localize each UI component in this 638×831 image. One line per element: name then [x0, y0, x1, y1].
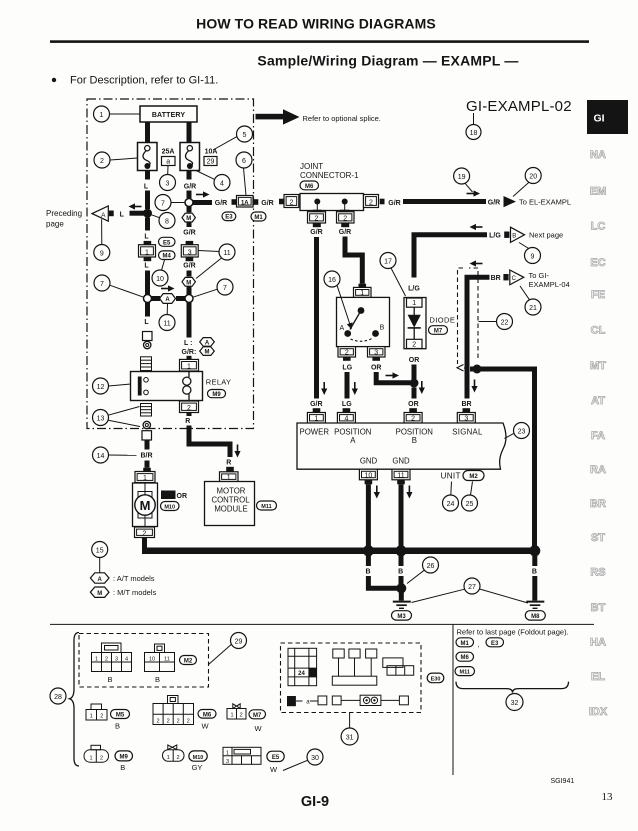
svg-text:Refer to optional splice.: Refer to optional splice. [303, 114, 381, 123]
wire L down [145, 271, 150, 295]
joint connector right pin box 2 [364, 195, 379, 208]
callout circle 18 [466, 125, 481, 140]
oval M6 ref [456, 652, 474, 661]
svg-text:a: a [306, 700, 310, 706]
wire G/R power down [314, 237, 319, 399]
callout circle 28 [50, 688, 66, 704]
connector M10 drawing [163, 745, 185, 761]
callout circle 20 [525, 168, 541, 184]
nub below box right [341, 223, 349, 227]
nub [254, 199, 259, 205]
svg-text:1: 1 [412, 300, 416, 307]
svg-text:EXAMPL-04: EXAMPL-04 [529, 280, 570, 289]
svg-text:M6: M6 [203, 712, 212, 718]
fuse block connector 1A [237, 196, 254, 208]
switch lever [350, 311, 361, 330]
svg-text:2: 2 [100, 714, 103, 720]
arrow down beside LG [352, 382, 358, 395]
svg-text:M2: M2 [184, 659, 193, 665]
svg-text:MODULE: MODULE [214, 505, 247, 514]
svg-text:B/R: B/R [140, 453, 152, 460]
grommet below relay [143, 421, 150, 428]
unit pin box 11 [392, 469, 410, 480]
svg-text:OR: OR [408, 401, 419, 408]
wire segment [187, 287, 192, 295]
callout circle 10 [152, 270, 168, 286]
svg-text:MT: MT [590, 360, 606, 372]
arrow down beside G/R [321, 382, 327, 395]
svg-text:W: W [201, 722, 209, 731]
svg-text:11: 11 [163, 320, 170, 327]
svg-text:E5: E5 [163, 240, 171, 246]
svg-text:M8: M8 [531, 614, 540, 620]
svg-text:Next page: Next page [529, 231, 563, 240]
connector M5 drawing [86, 704, 107, 720]
junction dot OR [410, 379, 419, 388]
wire stub into relay pin 1 [187, 356, 192, 360]
wire GND 10 down [366, 484, 371, 549]
hatched joint above relay [141, 357, 152, 371]
wire G/R below splice [187, 303, 192, 338]
svg-text:27: 27 [468, 584, 476, 591]
svg-text:B: B [398, 568, 403, 575]
wire color swatch OR [161, 491, 176, 500]
svg-text:DIODE: DIODE [430, 316, 456, 325]
E30 pin towers [332, 649, 377, 685]
svg-text:2: 2 [369, 199, 373, 206]
svg-text:M7: M7 [253, 713, 262, 719]
svg-text:W: W [270, 765, 278, 774]
svg-text:M10: M10 [193, 755, 204, 761]
link wire between splices [152, 296, 161, 301]
svg-text:GI: GI [593, 113, 604, 125]
svg-text:29: 29 [207, 159, 215, 166]
svg-text:GND: GND [392, 456, 410, 465]
svg-text:To EL-EXAMPL: To EL-EXAMPL [519, 197, 571, 206]
svg-text:5: 5 [243, 132, 247, 139]
nub below pin 11 [397, 480, 405, 485]
svg-text:BR: BR [590, 498, 606, 510]
svg-text:CONTROL: CONTROL [211, 496, 250, 505]
svg-text:3: 3 [374, 350, 378, 357]
svg-text:GI-EXAMPL-02: GI-EXAMPL-02 [466, 98, 572, 115]
callout circle 13 [93, 410, 109, 426]
svg-text:SGI941: SGI941 [551, 778, 575, 785]
svg-text:OR: OR [177, 493, 188, 500]
svg-text:R: R [185, 418, 190, 425]
detectable-circuit dashed box [458, 268, 479, 368]
svg-text:,: , [478, 640, 480, 649]
callout circle 5 [237, 126, 253, 142]
svg-text:Sample/Wiring Diagram — EXAMPL: Sample/Wiring Diagram — EXAMPL — [257, 53, 518, 69]
svg-text:C: C [512, 276, 517, 282]
svg-text:M: M [140, 498, 151, 513]
svg-text:2: 2 [187, 405, 191, 412]
arrow down beside wire 10 [374, 486, 380, 499]
svg-text:2: 2 [412, 341, 416, 348]
svg-text:4: 4 [220, 180, 224, 187]
ground oval M3 [392, 611, 412, 620]
wire G/R down from splice [187, 207, 192, 213]
callout circle 2 [94, 152, 110, 168]
diode CR1 body [404, 298, 426, 349]
svg-text:M9: M9 [212, 392, 221, 398]
svg-text:L: L [144, 262, 149, 269]
svg-text:W: W [254, 724, 262, 733]
callout circle 32 [506, 694, 523, 711]
connector oval E5 [267, 751, 284, 761]
svg-text:2: 2 [187, 718, 190, 724]
ground bus wire [142, 548, 535, 555]
motor pin box 1 [135, 472, 155, 483]
diode pin box 2 [407, 339, 423, 348]
callout circle 6 [236, 152, 252, 168]
hexagon M on G/R wire [182, 277, 195, 286]
wire segment [187, 223, 192, 228]
switch contact B [372, 330, 379, 337]
svg-text:13: 13 [602, 791, 614, 803]
svg-text:A: A [350, 436, 356, 445]
connector E5 drawing [223, 747, 261, 765]
callout line to 18 [473, 113, 475, 125]
svg-text:2: 2 [176, 755, 179, 761]
svg-text:G/R: G/R [388, 200, 400, 207]
svg-text:RELAY: RELAY [206, 378, 232, 387]
next-page triangle A [92, 206, 108, 221]
arrow down beside BR wire [471, 380, 477, 393]
svg-text:1: 1 [226, 751, 229, 757]
svg-text:To GI-: To GI- [529, 271, 550, 280]
svg-text:G/R: G/R [183, 262, 195, 269]
hexagon A link [160, 294, 176, 304]
svg-text:E30: E30 [431, 677, 441, 683]
svg-text:M: M [205, 350, 210, 356]
arrow down beside wire 11 [406, 486, 412, 499]
diode symbol [408, 307, 421, 339]
svg-text:1: 1 [90, 714, 93, 720]
svg-text:1: 1 [95, 656, 98, 662]
wire L down from junction [145, 218, 150, 231]
svg-text:6: 6 [242, 158, 246, 165]
connector oval M6 [198, 710, 216, 719]
wire B/R to motor [145, 440, 150, 450]
wire to ground M3 [399, 593, 404, 601]
callout circle 22 [497, 314, 513, 330]
svg-text:25: 25 [466, 501, 474, 508]
wire R relay to module [187, 413, 192, 417]
dashed connector group box E30 [281, 643, 422, 713]
joint connector bottom pin box 2 (right) [337, 212, 355, 223]
svg-text:11: 11 [164, 656, 170, 662]
nub below pin 2 [343, 357, 351, 361]
svg-text:G/R: G/R [310, 229, 322, 236]
svg-text:1: 1 [227, 474, 231, 481]
nub above motor [143, 468, 151, 472]
svg-text:G/R: G/R [183, 230, 195, 237]
svg-text:A: A [98, 577, 103, 583]
svg-text:10A: 10A [205, 149, 218, 156]
nub after triangle A [109, 211, 114, 217]
callout circle 11 [219, 244, 235, 260]
wire L/G next-page run [414, 235, 487, 278]
oval M1 ref [456, 638, 474, 647]
svg-text:4: 4 [125, 656, 128, 662]
svg-text:LG: LG [342, 364, 352, 371]
svg-text:LC: LC [591, 221, 606, 233]
svg-text:2: 2 [156, 718, 159, 724]
nub right of pin box [380, 199, 385, 205]
svg-text:B: B [107, 675, 112, 684]
unit box (torn edge) [297, 423, 506, 469]
splice open circle [185, 199, 193, 207]
svg-text:M3: M3 [397, 614, 406, 620]
svg-text:M2: M2 [469, 474, 478, 480]
svg-text:25A: 25A [162, 149, 175, 156]
unit pin box 4 [337, 413, 355, 424]
callout circle 30 [307, 749, 323, 765]
connector oval M10 [161, 502, 180, 511]
connector M7 drawing [227, 704, 246, 719]
oval E3 ref [486, 638, 504, 647]
unit pin box 1 [307, 413, 325, 424]
svg-text:1: 1 [230, 713, 233, 719]
svg-text:8: 8 [165, 218, 169, 225]
svg-text:L: L [120, 212, 125, 219]
callout circle 17 [380, 253, 396, 269]
bus junction dot 2 [396, 545, 407, 556]
relay pin box 2 [180, 401, 199, 413]
svg-text:B: B [380, 325, 385, 332]
nub above unit pin 2 [409, 408, 417, 412]
svg-text:HOW TO READ WIRING DIAGRAMS: HOW TO READ WIRING DIAGRAMS [196, 16, 436, 32]
E30 grid connector [288, 648, 317, 685]
callout circle 1 [94, 106, 110, 122]
wire LG down [345, 372, 350, 399]
svg-text:7: 7 [223, 285, 227, 292]
svg-text:1: 1 [360, 290, 364, 297]
splice open circle right [185, 295, 193, 303]
svg-text:BR: BR [491, 275, 501, 282]
wire fuse10A down [187, 171, 192, 180]
callout circle 25 [462, 495, 478, 511]
svg-text:2: 2 [314, 216, 318, 223]
svg-text:M: M [186, 216, 191, 222]
svg-text:A: A [101, 212, 106, 219]
inline connector box below relay [142, 431, 152, 440]
svg-text:B: B [155, 675, 160, 684]
motor control module U1 [205, 482, 255, 526]
arrow left above L/G [470, 224, 483, 230]
callout circle 27 [464, 578, 480, 594]
svg-text:1: 1 [143, 475, 147, 482]
svg-text:B: B [532, 568, 537, 575]
connector oval M4 [159, 251, 176, 260]
svg-text:24: 24 [447, 501, 455, 508]
unit pin box 3 [457, 413, 475, 424]
svg-text:3: 3 [464, 416, 468, 423]
svg-text:M1: M1 [461, 641, 470, 647]
connector M2 4-pin drawing [92, 643, 132, 672]
svg-text:ST: ST [591, 532, 605, 544]
svg-text:G/R: G/R [215, 200, 227, 207]
svg-text:Refer to last page (Foldout pa: Refer to last page (Foldout page). [457, 628, 569, 637]
svg-text:1: 1 [89, 756, 92, 762]
joint connector bottom pin box 2 (left) [308, 212, 326, 223]
connector oval E30 [427, 673, 444, 683]
svg-text:2: 2 [289, 199, 293, 206]
svg-text:E5: E5 [272, 755, 280, 761]
callout circle 8 [159, 213, 175, 229]
svg-text:10: 10 [365, 473, 373, 480]
svg-text:1: 1 [145, 250, 149, 257]
GI section tab [587, 100, 628, 134]
svg-text:Preceding: Preceding [46, 209, 82, 218]
svg-text:1: 1 [187, 363, 191, 370]
wire G/R to EL-EXAMPL [403, 199, 486, 204]
svg-text:26: 26 [427, 563, 435, 570]
arrow right on OR [386, 372, 400, 378]
svg-text:M6: M6 [461, 655, 470, 661]
svg-text:EL: EL [591, 671, 605, 683]
svg-text:1: 1 [100, 112, 104, 119]
nub below box 3 [186, 257, 194, 261]
svg-text:: A/T models: : A/T models [113, 574, 155, 583]
svg-text:7: 7 [100, 281, 104, 288]
E30 terminal row [287, 695, 408, 706]
nub below pin 3 [372, 357, 380, 361]
nub above box 1 [144, 241, 152, 245]
svg-text:L: L [144, 319, 149, 326]
svg-text:A: A [339, 325, 344, 332]
wire battery to fuse 10A [187, 122, 192, 143]
callout circle 4 [214, 175, 230, 191]
underbrace [456, 682, 569, 693]
nub below-right [340, 210, 349, 213]
svg-text:B: B [412, 436, 417, 445]
E30 stacked connectors [383, 658, 414, 675]
svg-text:BR: BR [461, 401, 471, 408]
svg-text:24: 24 [298, 671, 305, 677]
wire B/R lower [145, 461, 150, 468]
svg-text:11: 11 [223, 250, 230, 257]
svg-text:OR: OR [409, 357, 420, 364]
callout circle 9 [525, 248, 541, 264]
connector oval M9 [208, 390, 226, 398]
svg-text:3: 3 [166, 180, 170, 187]
switch pin box 1 [354, 287, 372, 297]
drop wire B middle [399, 555, 404, 566]
callout circle 12 [93, 378, 109, 394]
svg-text:M7: M7 [434, 328, 443, 334]
arrow right on G/R [196, 191, 210, 197]
wire OR to unit [412, 388, 417, 399]
svg-text:19: 19 [458, 174, 466, 181]
svg-text:10: 10 [149, 656, 155, 662]
connector oval M6 [300, 181, 319, 190]
section brace [70, 633, 80, 767]
motor pin box 2 [135, 527, 155, 538]
svg-text:32: 32 [511, 700, 519, 707]
svg-text:GY: GY [192, 763, 203, 772]
svg-text:RS: RS [590, 567, 605, 579]
svg-text:M: M [186, 280, 191, 286]
svg-text:9: 9 [531, 253, 535, 260]
callout circle 21 [525, 299, 541, 315]
svg-text:G/R: G/R [488, 199, 500, 206]
wire OR from diode [412, 365, 417, 380]
svg-text:2: 2 [167, 718, 170, 724]
svg-text:G/R: G/R [339, 229, 351, 236]
drop wire B left [366, 555, 371, 566]
svg-text:23: 23 [518, 428, 526, 435]
nub [232, 199, 237, 205]
svg-text:2: 2 [100, 756, 103, 762]
connector oval M7 [429, 326, 448, 335]
svg-text:M6: M6 [305, 184, 314, 190]
svg-text:: M/T models: : M/T models [113, 588, 156, 597]
svg-text:EC: EC [590, 257, 605, 269]
svg-text:M9: M9 [120, 755, 129, 761]
svg-text:E3: E3 [491, 641, 499, 647]
nub below box 1 [144, 257, 152, 261]
nub below-left [313, 210, 322, 213]
svg-text:JOINT: JOINT [300, 162, 323, 171]
wire G/R down [187, 271, 192, 277]
svg-text:29: 29 [235, 638, 243, 645]
callout circle 31 [341, 728, 358, 745]
switch dashed arc [351, 338, 374, 341]
svg-text:2: 2 [411, 416, 415, 423]
svg-text:L: L [144, 233, 149, 240]
relay M9 [131, 372, 203, 402]
svg-text:RA: RA [590, 464, 606, 476]
connector pin box 1 [139, 245, 156, 257]
callout circle 14 [93, 447, 109, 463]
callout circle 15 [92, 542, 108, 558]
wire segment L to junction [130, 211, 146, 216]
connector oval E5 [159, 237, 176, 246]
wire OR elbow to junction [376, 372, 410, 383]
nub before triangle B [504, 232, 509, 238]
ground symbol M8 [526, 602, 544, 609]
wire segment G/R [193, 200, 213, 205]
svg-text:G/R:: G/R: [182, 349, 197, 356]
svg-text:M: M [97, 591, 102, 597]
callout circle 19 [454, 168, 470, 184]
callout circle 7 left [94, 275, 110, 291]
connector oval M2 [463, 471, 484, 481]
bus junction dot 3 [529, 545, 540, 556]
wire fuse25A down [145, 171, 150, 180]
wire branch to right bus drop [470, 369, 535, 548]
bottom separator rule [50, 623, 594, 625]
svg-text:B: B [120, 763, 125, 772]
fuse number box 29 [204, 157, 217, 166]
joint connector left pin box 2 [284, 195, 299, 208]
nub above unit pin 3 [463, 408, 471, 412]
connector oval M5 [111, 710, 130, 719]
svg-text:2: 2 [100, 158, 104, 165]
wire motor to ground bus [142, 538, 147, 550]
fuse number box a [162, 157, 176, 166]
svg-text:M4: M4 [163, 254, 172, 260]
svg-text:15: 15 [96, 547, 104, 554]
callout circle 26 [423, 557, 439, 573]
svg-text:page: page [46, 220, 64, 229]
svg-text:L: L [144, 184, 149, 191]
arrow left on L [129, 203, 142, 209]
wire BR run [467, 277, 490, 398]
